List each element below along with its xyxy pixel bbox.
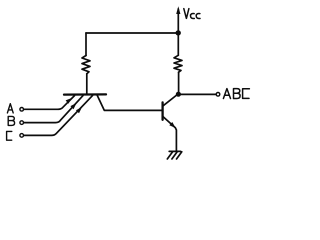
wire output xyxy=(181,93,216,95)
input terminal C label xyxy=(7,131,12,140)
label ABC output xyxy=(223,89,249,99)
label Vcc xyxy=(184,9,200,19)
node junction rail/Vcc xyxy=(176,30,181,35)
wire emitter to ground xyxy=(175,128,176,152)
transistor T2 collector xyxy=(163,95,178,107)
transistor T2 emitter with arrow xyxy=(163,116,176,128)
input terminal C circle xyxy=(20,134,24,138)
resistor R2 (right) xyxy=(174,33,182,94)
ground xyxy=(167,151,182,159)
transistor T1 collector wire to T2 base xyxy=(97,96,162,111)
input terminal A label xyxy=(7,104,13,113)
power Vcc arrow xyxy=(176,6,180,33)
wire input B / emitter 2 xyxy=(24,96,83,123)
wire top rail xyxy=(86,32,178,34)
wire input C / emitter 3 xyxy=(24,96,93,136)
input terminal B label xyxy=(8,116,14,125)
resistor R1 (left) xyxy=(82,33,90,94)
output terminal circle xyxy=(216,93,220,97)
input terminal B circle xyxy=(20,121,24,125)
node junction collector/output xyxy=(176,92,181,97)
transistor T2 base bar xyxy=(161,102,163,119)
wire input A / emitter 1 xyxy=(24,96,75,110)
input terminal A circle xyxy=(20,108,24,112)
transistor T1 base bar (multi-emitter input) xyxy=(64,93,106,95)
